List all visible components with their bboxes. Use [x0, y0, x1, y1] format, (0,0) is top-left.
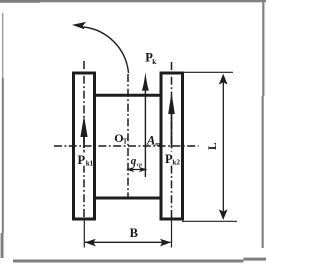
label Pk1 white backing [77, 153, 93, 166]
central vertical dash-dot [127, 74, 129, 198]
B dimension line [85, 241, 171, 243]
bottom connecting bar [95, 197, 161, 200]
force Pk2 arrow [171, 100, 173, 148]
svg-text:P: P [78, 153, 86, 167]
scan border right strip [262, 2, 264, 96]
scan border left strip [2, 13, 3, 78]
svg-text:A: A [146, 133, 155, 147]
svg-text:k2: k2 [172, 159, 180, 167]
B dimension extension line right [171, 220, 173, 248]
svg-text:T: T [123, 137, 128, 145]
right track axis dash-dot [171, 62, 173, 220]
curved arrow head [72, 22, 86, 29]
L dimension bottom arrowhead [219, 209, 228, 220]
svg-text:k: k [152, 58, 156, 66]
label Pk2 white backing [164, 152, 180, 166]
scan border bottom strip [13, 260, 244, 263]
right track rectangle [161, 73, 183, 219]
svg-text:cp: cp [137, 162, 142, 168]
offset q double arrow [128, 169, 146, 171]
scan border top strip [0, 0, 40, 3]
L dimension top arrowhead [219, 74, 228, 85]
horizontal centerline dash-dot [54, 145, 199, 147]
svg-text:k1: k1 [86, 159, 94, 167]
B dimension extension line left [83, 220, 85, 248]
B dimension right arrowhead [160, 239, 171, 247]
curved rotation arrow [84, 27, 129, 73]
svg-text:L: L [207, 142, 219, 150]
svg-text:B: B [130, 226, 138, 240]
force Pk1 arrow [83, 125, 85, 148]
left track axis dash-dot [83, 61, 85, 220]
left track rectangle [74, 73, 95, 219]
L dimension top extension line [184, 71, 233, 73]
B dimension left arrowhead [85, 239, 96, 247]
svg-text:m: m [155, 141, 160, 148]
L dimension line [222, 77, 224, 218]
L dimension bottom extension line [182, 220, 237, 222]
top connecting bar [95, 94, 161, 97]
force Pk arrowhead [142, 72, 149, 91]
force Pk line [144, 78, 146, 177]
